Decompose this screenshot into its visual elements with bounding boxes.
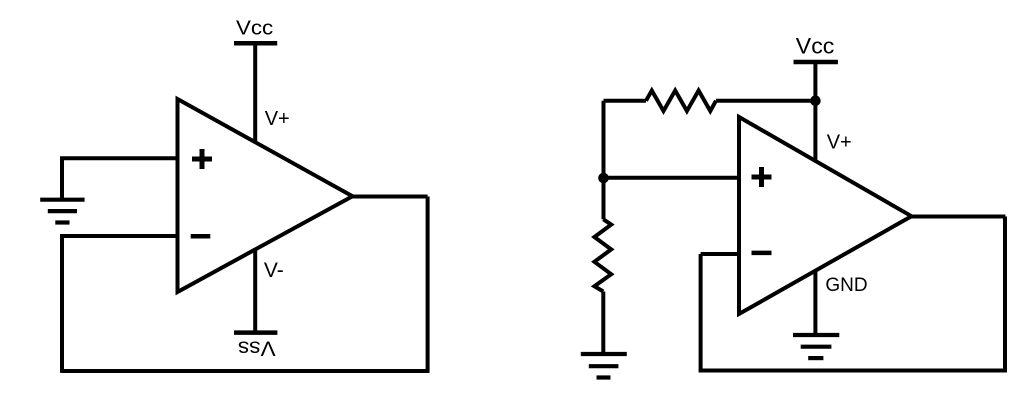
ground (left circuit) [40, 200, 84, 223]
svg-text:V+: V+ [265, 108, 290, 130]
wire noninverting input U1 [60, 156, 178, 160]
wire feedback right vertical U1 [426, 197, 430, 372]
node B junction dot [598, 173, 609, 184]
svg-text:Vcc: Vcc [796, 34, 835, 59]
wire feedback right vertical U2 [1003, 217, 1007, 371]
wire feedback bottom U2 [699, 369, 1007, 373]
resistor R1 (horizontal) [646, 91, 716, 112]
svg-text:Vss: Vss [238, 336, 276, 360]
wire R2 to ground [601, 292, 605, 355]
wire top net right segment [716, 99, 815, 103]
svg-text:GND: GND [825, 275, 867, 296]
resistor R2 (vertical) [594, 219, 611, 291]
ground (U2 GND pin) [793, 335, 839, 358]
wire V+ pin U2 [813, 101, 817, 162]
wire inverting input U1 [60, 234, 178, 238]
wire left vertical to node B [602, 101, 606, 178]
op-amp U1 plus input marking [192, 149, 212, 169]
wire top net left segment [604, 99, 647, 103]
Vss power symbol (left circuit) [234, 330, 277, 335]
wire feedback bottom U1 [62, 369, 430, 373]
wire feedback left vertical U2 [699, 254, 703, 371]
wire U2 output [910, 215, 1006, 219]
wire noninverting input U2 [604, 176, 740, 180]
wire GND pin U2 [813, 270, 817, 334]
wire V- pin U1 [253, 249, 257, 333]
wire U1 output [351, 195, 428, 199]
op-amp U1 (left, voltage follower) [178, 99, 353, 292]
Vcc power symbol (right circuit) [794, 60, 838, 65]
wire Vcc stub to node A [813, 62, 817, 101]
svg-text:V-: V- [264, 259, 284, 282]
wire node B to R2 [602, 178, 606, 219]
op-amp U1 minus input marking [191, 234, 211, 239]
svg-text:V+: V+ [827, 131, 852, 153]
op-amp U2 plus input marking [752, 167, 772, 187]
wire ground stub U1 [60, 158, 64, 200]
node A junction dot [810, 95, 821, 106]
wire V+ pin U1 [253, 43, 257, 143]
ground (below R2) [581, 354, 627, 378]
svg-text:Vcc: Vcc [236, 18, 273, 40]
op-amp U2 minus input marking [752, 251, 772, 256]
Vcc power symbol (left circuit) [234, 41, 277, 46]
op-amp U2 (right, comparator) [739, 117, 912, 314]
wire inverting input U2 [701, 252, 739, 256]
wire feedback left vertical U1 [60, 236, 64, 373]
